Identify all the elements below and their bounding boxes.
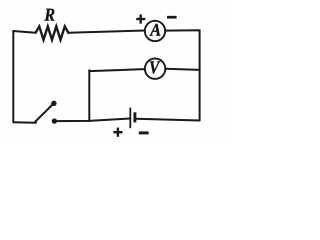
wire battery to bottom-right corner bbox=[136, 119, 200, 121]
wire bottom-left to switch bbox=[13, 121, 36, 124]
wire ammeter to top-right corner and right side down bbox=[165, 30, 199, 120]
wire switch to battery bbox=[54, 119, 129, 122]
wire junction up to voltmeter branch bbox=[88, 70, 90, 121]
minus sign at ammeter bbox=[167, 16, 177, 19]
switch terminal dot (lower) bbox=[52, 118, 57, 123]
battery negative plate (short) bbox=[133, 112, 136, 122]
resistor label R bbox=[44, 9, 54, 21]
switch terminal dot (upper) bbox=[51, 101, 56, 106]
wire voltmeter branch right bbox=[165, 69, 199, 70]
battery positive plate (long) bbox=[129, 108, 131, 129]
voltmeter V1 circle bbox=[145, 58, 165, 78]
wire voltmeter branch left bbox=[89, 69, 145, 71]
resistor R (zigzag) bbox=[36, 26, 69, 39]
plus sign at battery bbox=[113, 128, 122, 137]
wire top-left to resistor bbox=[13, 31, 35, 33]
minus sign at battery bbox=[139, 131, 149, 134]
wire left side down bbox=[12, 31, 14, 122]
ammeter label A bbox=[150, 24, 161, 36]
wire resistor to ammeter bbox=[68, 31, 144, 33]
voltmeter label V bbox=[150, 61, 161, 73]
switch S blade (open) bbox=[34, 104, 53, 123]
plus sign at ammeter bbox=[136, 14, 145, 23]
ammeter A1 circle bbox=[145, 21, 165, 41]
